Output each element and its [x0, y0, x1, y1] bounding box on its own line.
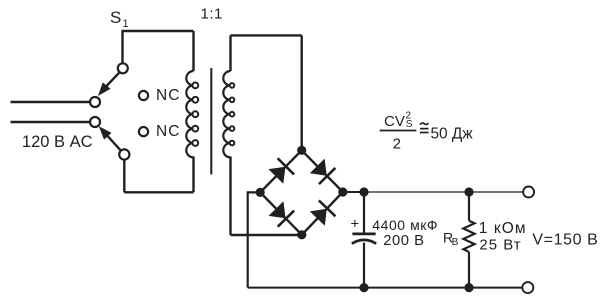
- bridge edge bottom-right: [302, 192, 343, 235]
- transformer T1 secondary winding curls: [230, 83, 235, 145]
- svg-text:В: В: [452, 237, 459, 248]
- formula approx-equal sign (tilde): [420, 123, 428, 125]
- resistor RB zigzag: [463, 221, 474, 252]
- wire secondary top horizontal: [231, 34, 302, 36]
- wire negative from bridge left node: [248, 192, 261, 287]
- switch S1 pole-1 arm with arrow: [98, 72, 120, 96]
- wire bottom rail: [248, 287, 522, 289]
- formula fraction bar: [380, 130, 417, 132]
- diode D4 bottom-to-right: [309, 200, 335, 226]
- wire AC input upper: [11, 101, 90, 103]
- wire capacitor bottom lead: [363, 243, 365, 288]
- transformer T1 core: [210, 68, 212, 175]
- transformer T1 primary winding curls: [192, 83, 198, 146]
- wire top rail resistor to terminal: [469, 191, 523, 193]
- node bridge right: [338, 187, 347, 196]
- wire top rail bridge to capacitor: [343, 191, 364, 193]
- capacitor C1 plus sign: [351, 215, 360, 232]
- svg-text:120 В AC: 120 В AC: [22, 133, 93, 151]
- diode D2 top-to-right: [309, 158, 335, 184]
- wire AC input lower: [11, 121, 90, 123]
- node capacitor bottom: [359, 283, 368, 292]
- wire switch left vertical: [121, 31, 123, 64]
- wire from pole-2 down: [123, 160, 125, 193]
- wire switch bottom horizontal: [124, 191, 193, 193]
- node resistor bottom: [464, 283, 473, 292]
- wire primary bottom stub: [192, 157, 194, 193]
- svg-text:V=150 В: V=150 В: [532, 232, 598, 249]
- svg-text:50 Дж: 50 Дж: [431, 125, 474, 142]
- label S1: [110, 8, 129, 30]
- node capacitor top: [359, 187, 368, 196]
- svg-text:1 кОм: 1 кОм: [479, 220, 527, 237]
- svg-text:1: 1: [123, 18, 129, 30]
- svg-text:+: +: [351, 215, 360, 232]
- svg-text:25 Вт: 25 Вт: [479, 237, 521, 254]
- label formula CVs^2/2: [384, 111, 413, 131]
- svg-text:1:1: 1:1: [201, 6, 223, 23]
- bridge edge left-bottom: [260, 192, 302, 234]
- transformer T1 primary winding: [186, 71, 193, 157]
- wire to bridge top node: [301, 35, 303, 150]
- diode D1 left-to-top: [268, 158, 294, 184]
- formula approx-equal sign (bars): [420, 128, 429, 130]
- wire capacitor top lead: [363, 192, 365, 233]
- switch S1 pole-1 moving contact: [118, 63, 128, 73]
- svg-text:CV: CV: [384, 113, 405, 130]
- node resistor top: [464, 187, 473, 196]
- wire secondary bottom stub: [229, 157, 231, 236]
- switch S1 common contact lower: [90, 117, 100, 127]
- wire secondary top stub: [229, 35, 231, 71]
- wire resistor top lead: [468, 192, 470, 221]
- node bridge top: [297, 146, 306, 155]
- switch S1 pole-2 arm with arrow: [99, 126, 121, 151]
- svg-text:NC: NC: [156, 123, 181, 140]
- capacitor C1 top plate: [352, 233, 375, 236]
- NC contact upper: [139, 91, 148, 100]
- terminal output negative: [522, 282, 533, 293]
- transformer T1 secondary winding: [223, 71, 230, 157]
- diode D3 left-to-bottom: [268, 200, 294, 226]
- switch S1 common contact upper: [90, 97, 100, 107]
- svg-text:200 В: 200 В: [383, 233, 424, 249]
- NC contact lower: [139, 127, 148, 136]
- wire secondary bottom to bridge bottom node: [231, 234, 302, 236]
- node bridge left: [256, 188, 265, 197]
- node bridge bottom: [297, 230, 306, 239]
- terminal output positive: [523, 187, 534, 198]
- svg-text:4400 мкФ: 4400 мкФ: [372, 217, 438, 233]
- bridge edge top-right: [302, 150, 343, 192]
- bridge edge left-top: [260, 150, 302, 192]
- wire resistor bottom lead: [468, 252, 470, 288]
- label RB: [443, 229, 459, 248]
- svg-text:S: S: [406, 119, 413, 130]
- wire switch top horizontal: [122, 30, 194, 32]
- wire primary top stub: [192, 31, 194, 71]
- switch S1 pole-2 moving contact: [119, 149, 129, 159]
- wire top rail capacitor to resistor: [364, 191, 469, 193]
- capacitor C1 bottom plate (curved): [352, 240, 376, 244]
- svg-text:NC: NC: [156, 87, 181, 104]
- svg-text:2: 2: [393, 135, 401, 152]
- svg-text:S: S: [110, 8, 121, 27]
